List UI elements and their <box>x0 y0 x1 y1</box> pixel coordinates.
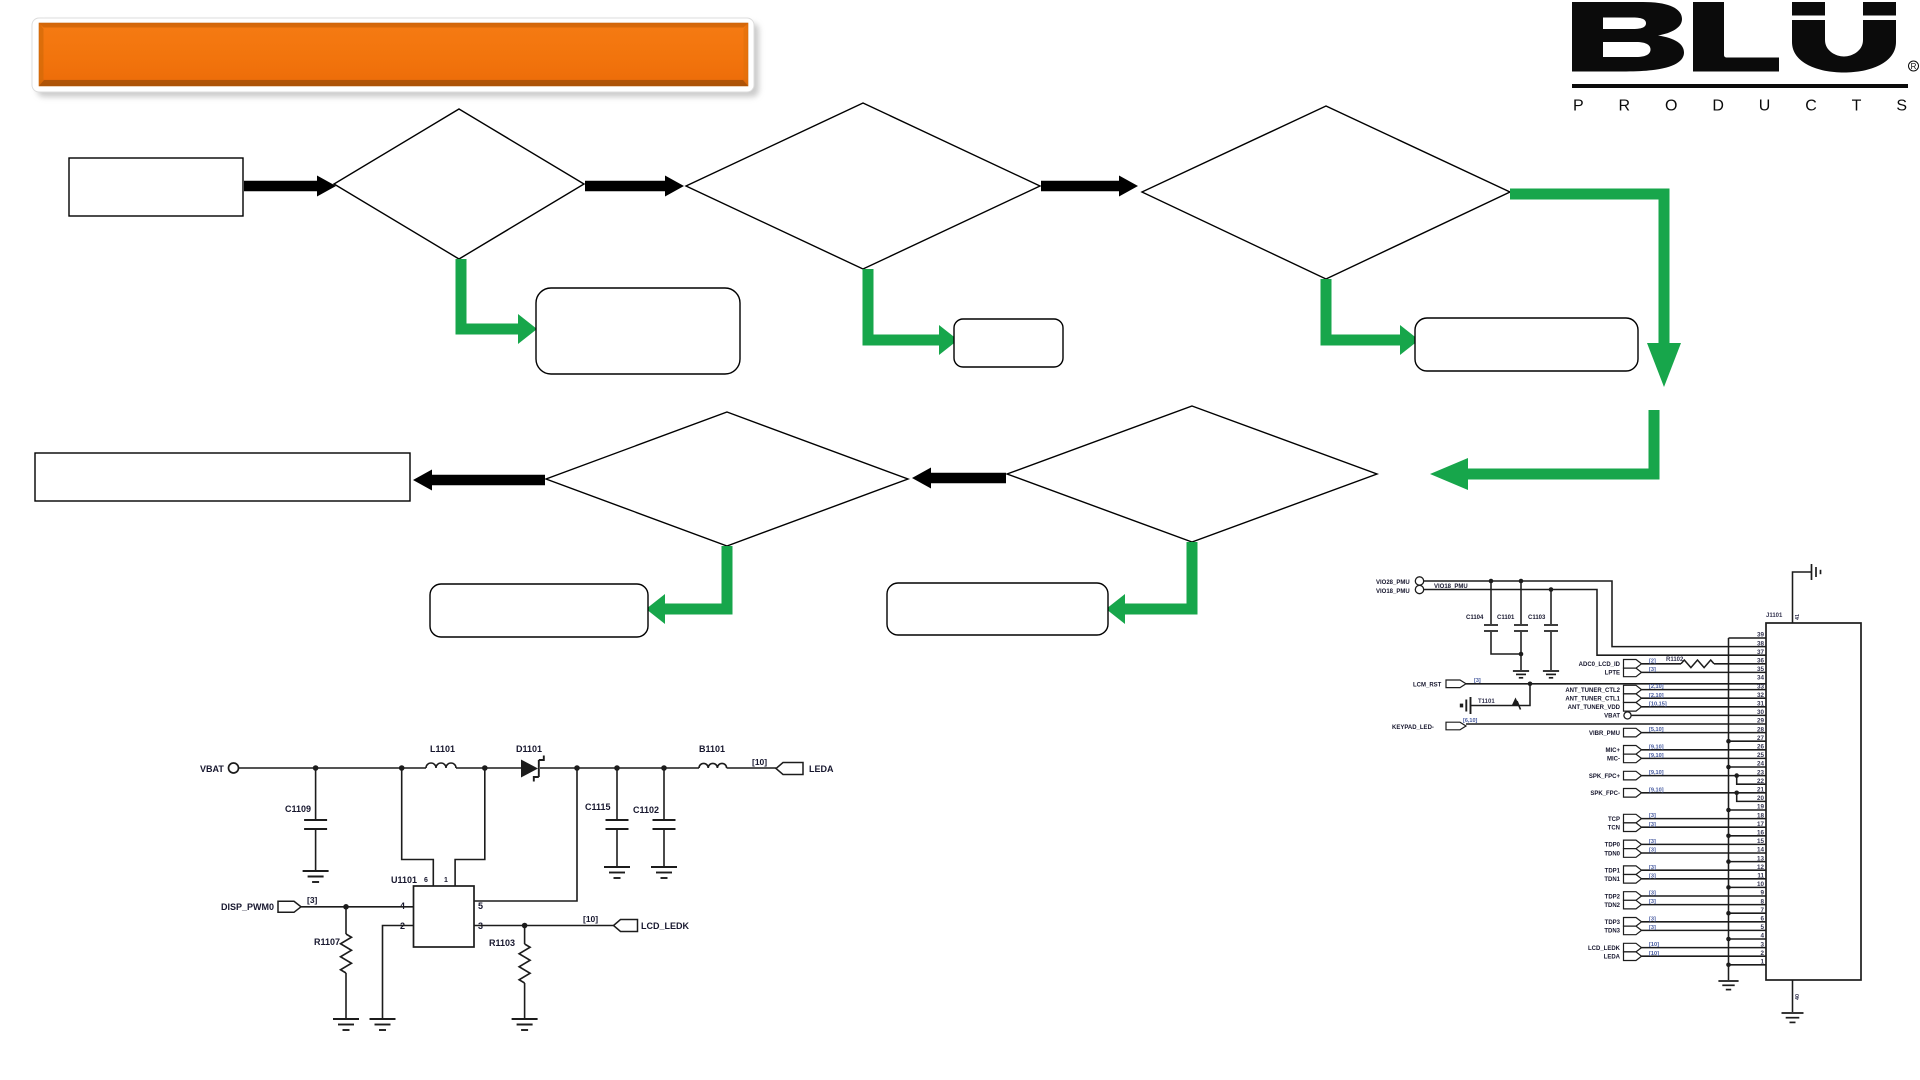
svg-text:5: 5 <box>1760 924 1764 931</box>
result box 4 <box>430 584 648 637</box>
node TCN (pin 17) <box>1608 822 1766 832</box>
svg-text:C1101: C1101 <box>1497 615 1515 621</box>
wire U1101 pin5 feedback <box>474 768 577 901</box>
green arrow to result box 5 <box>1106 542 1192 624</box>
svg-text:TDP2: TDP2 <box>1605 894 1621 900</box>
svg-text:[3]: [3] <box>1649 848 1656 854</box>
node TDN3 (pin 5) <box>1604 925 1766 935</box>
wire pin 27 to ground bus <box>1729 740 1767 742</box>
wire pin 3 to LCD_LEDK <box>474 925 614 927</box>
svg-text:[3]: [3] <box>1649 839 1656 845</box>
svg-text:TCP: TCP <box>1608 817 1620 823</box>
flow start box <box>69 158 243 216</box>
svg-text:[3]: [3] <box>1649 813 1656 819</box>
wire VIO28 rail to pin 38 <box>1424 581 1766 647</box>
wire VIO18 rail to pin 37 <box>1424 590 1766 656</box>
ground C1102 <box>651 867 677 878</box>
svg-text:TDP1: TDP1 <box>1605 869 1621 875</box>
svg-text:ANT_TUNER_CTL2: ANT_TUNER_CTL2 <box>1565 688 1620 694</box>
BLU PRODUCTS logo <box>1572 2 1919 115</box>
svg-text:21: 21 <box>1757 787 1765 794</box>
node junction C1104 <box>1489 579 1494 584</box>
wire VBAT rail <box>239 767 427 769</box>
decision diamond 5 (row 2 right) <box>1007 406 1377 542</box>
capacitor C1102 <box>633 768 676 866</box>
svg-text:30: 30 <box>1757 709 1765 716</box>
node TDN0 (pin 14) <box>1604 848 1766 858</box>
resistor R1107 <box>314 907 352 1018</box>
node TDP0 (pin 15) <box>1605 839 1766 849</box>
wire T1101 branch <box>1471 684 1531 706</box>
ground C1115 <box>604 867 630 878</box>
svg-text:6: 6 <box>424 877 428 884</box>
wire SPK_FPC+ stub to pin 22 <box>1737 776 1766 785</box>
svg-text:[9,10]: [9,10] <box>1649 770 1664 776</box>
decision diamond 1 <box>334 109 584 259</box>
node TDP3 (pin 6) <box>1605 916 1766 926</box>
wire pin 2 to ground <box>383 926 414 1019</box>
svg-text:32: 32 <box>1757 692 1765 699</box>
svg-text:16: 16 <box>1757 830 1765 837</box>
svg-text:26: 26 <box>1757 744 1765 751</box>
svg-text:TDN0: TDN0 <box>1604 851 1620 857</box>
ground C1103 <box>1543 671 1559 678</box>
svg-text:VBAT: VBAT <box>200 764 224 774</box>
svg-text:18: 18 <box>1757 812 1765 819</box>
svg-text:TDN1: TDN1 <box>1604 877 1620 883</box>
svg-text:3: 3 <box>1760 941 1764 948</box>
wire LCM_RST to pin 34 <box>1466 683 1766 685</box>
wire pin 24 to ground bus <box>1729 766 1767 768</box>
svg-text:6: 6 <box>1760 916 1764 923</box>
svg-text:33: 33 <box>1757 683 1765 690</box>
black arrow 3 <box>1041 176 1138 197</box>
wire pin 10 to ground bus <box>1729 886 1767 888</box>
svg-text:ANT_TUNER_VDD: ANT_TUNER_VDD <box>1568 705 1621 711</box>
wire pin 4 to ground bus <box>1729 938 1767 940</box>
svg-text:37: 37 <box>1757 649 1765 656</box>
svg-text:1: 1 <box>1760 959 1764 966</box>
svg-text:[3]: [3] <box>1649 667 1656 673</box>
wire pin 1 to ground bus <box>1729 964 1767 966</box>
svg-text:TDN2: TDN2 <box>1604 903 1620 909</box>
svg-text:[6,10]: [6,10] <box>1463 718 1478 724</box>
svg-text:14: 14 <box>1757 847 1765 854</box>
svg-text:22: 22 <box>1757 778 1765 785</box>
wire pin 40 to ground <box>1792 980 1794 1012</box>
svg-text:D1101: D1101 <box>516 744 542 754</box>
svg-text:L1101: L1101 <box>430 744 455 754</box>
svg-text:[10]: [10] <box>1649 942 1659 948</box>
wire pin 41 to ground <box>1793 572 1812 623</box>
op-amp U1101 (boost driver IC) <box>391 875 483 947</box>
svg-text:MIC-: MIC- <box>1607 757 1620 763</box>
svg-text:10: 10 <box>1757 881 1765 888</box>
result box 1 <box>536 288 740 374</box>
node MIC- (pin 25) <box>1607 753 1766 763</box>
svg-text:38: 38 <box>1757 640 1765 647</box>
diode D1101 (schottky) <box>516 744 544 782</box>
svg-text:[9,10]: [9,10] <box>1649 753 1664 759</box>
capacitor C1104 <box>1466 581 1521 654</box>
svg-text:B1101: B1101 <box>699 744 725 754</box>
ground pin 40 <box>1782 1013 1804 1022</box>
capacitor C1103 <box>1528 590 1558 671</box>
svg-text:TDP3: TDP3 <box>1605 920 1621 926</box>
svg-text:[10]: [10] <box>752 757 767 767</box>
svg-text:20: 20 <box>1757 795 1765 802</box>
node junction L1101 right <box>482 765 488 771</box>
node LCD_LEDK (pin 3) <box>1588 942 1766 952</box>
ground C1109 <box>303 871 329 882</box>
black arrow 1 <box>244 176 336 197</box>
wire DISP_PWM0 to pin 4 <box>301 906 414 908</box>
svg-text:[2]: [2] <box>1649 658 1656 664</box>
node TCP (pin 18) <box>1608 813 1766 823</box>
node junction C1103 <box>1549 587 1554 592</box>
svg-text:24: 24 <box>1757 761 1765 768</box>
svg-text:VIO18_PMU: VIO18_PMU <box>1376 589 1410 595</box>
green arrow to result box 3 <box>1326 279 1419 355</box>
svg-text:[3]: [3] <box>1649 925 1656 931</box>
green connector down from diamond 3 <box>1510 194 1681 387</box>
svg-text:C1104: C1104 <box>1466 615 1484 621</box>
capacitor C1115 <box>585 768 629 866</box>
svg-text:C1103: C1103 <box>1528 615 1546 621</box>
node junction R1107 <box>343 904 349 910</box>
svg-text:SPK_FPC+: SPK_FPC+ <box>1589 774 1621 780</box>
svg-text:LEDA: LEDA <box>1604 955 1621 961</box>
node junction C1109 <box>313 765 319 771</box>
svg-text:[3]: [3] <box>1649 865 1656 871</box>
black arrow row2 middle <box>912 468 1006 489</box>
ferrite bead B1101 <box>699 744 727 768</box>
svg-text:25: 25 <box>1757 752 1765 759</box>
decision diamond 3 <box>1142 106 1510 279</box>
svg-text:ANT_TUNER_CTL1: ANT_TUNER_CTL1 <box>1565 697 1620 703</box>
result box 3 <box>1415 318 1638 371</box>
node junction C1101 <box>1519 579 1524 584</box>
node ANT_TUNER_CTL2 (pin 33) <box>1565 684 1766 694</box>
svg-text:4: 4 <box>1760 933 1764 940</box>
svg-text:7: 7 <box>1760 907 1764 914</box>
node VIBR_PMU (pin 28) <box>1589 727 1766 737</box>
green arrow to result box 4 <box>646 546 727 624</box>
svg-text:[3]: [3] <box>307 895 318 905</box>
svg-text:[9,10]: [9,10] <box>1649 744 1664 750</box>
svg-text:1: 1 <box>444 877 448 884</box>
svg-text:VIO28_PMU: VIO28_PMU <box>1376 580 1410 586</box>
end box row 2 <box>35 453 410 501</box>
node TDP1 (pin 12) <box>1605 865 1766 875</box>
wire L1101 right leg to U1101 <box>455 768 485 886</box>
svg-text:[3]: [3] <box>1649 891 1656 897</box>
node MIC+ (pin 26) <box>1605 744 1766 754</box>
svg-text:ADC0_LCD_ID: ADC0_LCD_ID <box>1579 662 1621 668</box>
svg-text:2: 2 <box>1760 950 1764 957</box>
svg-text:36: 36 <box>1757 658 1765 665</box>
black arrow 2 <box>585 176 684 197</box>
svg-text:LCD_LEDK: LCD_LEDK <box>641 921 690 931</box>
node ANT_TUNER_VDD (pin 31) <box>1568 701 1766 711</box>
ground pin 41 (rotated) <box>1812 564 1821 580</box>
result box 2 <box>954 319 1063 367</box>
wire pin 13 to ground bus <box>1729 861 1767 863</box>
green arrow to result box 1 <box>461 259 537 344</box>
wire pin 39 to ground bus <box>1729 637 1767 639</box>
node TDP2 (pin 9) <box>1605 891 1766 901</box>
svg-text:[3]: [3] <box>1649 899 1656 905</box>
node LPTE (pin 35) <box>1605 667 1766 677</box>
wire KEYPAD_LED- to pin 29 <box>1466 723 1766 725</box>
svg-text:T1101: T1101 <box>1478 699 1495 705</box>
svg-text:[3]: [3] <box>1649 873 1656 879</box>
title banner <box>32 18 759 97</box>
node VBAT (pin 30) <box>1604 712 1766 720</box>
svg-text:PRODUCTS: PRODUCTS <box>1573 98 1907 115</box>
svg-text:R1102: R1102 <box>1666 657 1684 663</box>
wire D1101 to B1101 <box>540 767 699 769</box>
ground pin 2 <box>370 1019 396 1030</box>
ground C1101 <box>1513 671 1529 678</box>
svg-text:[10]: [10] <box>583 914 598 924</box>
svg-text:8: 8 <box>1760 898 1764 905</box>
node junction C1115 <box>614 765 620 771</box>
svg-text:29: 29 <box>1757 718 1765 725</box>
svg-text:TDN3: TDN3 <box>1604 929 1620 935</box>
svg-text:23: 23 <box>1757 769 1765 776</box>
wire B1101 to LEDA <box>727 767 776 769</box>
svg-text:34: 34 <box>1757 675 1765 682</box>
svg-text:11: 11 <box>1757 873 1764 880</box>
node LEDA output <box>776 763 803 775</box>
node junction R1103 <box>522 923 528 929</box>
svg-text:[3]: [3] <box>1649 822 1656 828</box>
svg-text:LPTE: LPTE <box>1605 671 1620 677</box>
resistor R1102 <box>1666 657 1766 668</box>
svg-text:5: 5 <box>478 901 483 911</box>
svg-text:LCD_LEDK: LCD_LEDK <box>1588 946 1621 952</box>
wire pin 19 to ground bus <box>1729 809 1767 811</box>
wire SPK_FPC- stub to pin 20 <box>1737 793 1766 802</box>
node ANT_TUNER_CTL1 (pin 32) <box>1565 693 1766 703</box>
svg-text:DISP_PWM0: DISP_PWM0 <box>221 902 274 912</box>
svg-text:SPK_FPC-: SPK_FPC- <box>1590 791 1620 797</box>
svg-text:LCM_RST: LCM_RST <box>1413 683 1442 689</box>
decision diamond 2 <box>686 103 1040 269</box>
node junction C1101 gnd <box>1519 652 1524 657</box>
result box 5 <box>887 583 1108 635</box>
inductor L1101 <box>426 744 456 768</box>
node VIO28_PMU terminal <box>1376 577 1424 586</box>
svg-text:[2,10]: [2,10] <box>1649 693 1664 699</box>
node TDN2 (pin 8) <box>1604 899 1766 909</box>
svg-text:15: 15 <box>1757 838 1765 845</box>
node VBAT input <box>200 763 239 774</box>
svg-text:31: 31 <box>1757 701 1765 708</box>
svg-text:MIC+: MIC+ <box>1605 748 1620 754</box>
node LEDA (pin 2) <box>1604 951 1766 961</box>
black arrow row2 left <box>413 470 545 491</box>
svg-text:R1107: R1107 <box>314 937 340 947</box>
capacitor C1109 <box>285 768 327 870</box>
svg-text:C1102: C1102 <box>633 805 659 815</box>
node LCD_LEDK output <box>614 920 638 932</box>
node SPK_FPC- (pin 21) <box>1590 787 1766 797</box>
green arrow to result box 2 <box>868 269 958 355</box>
wire L1101 to D1101 <box>456 767 521 769</box>
node diode output junction <box>574 765 580 771</box>
svg-text:39: 39 <box>1757 632 1765 639</box>
svg-text:35: 35 <box>1757 666 1765 673</box>
wire ground bus <box>1728 638 1730 980</box>
svg-text:R1103: R1103 <box>489 938 515 948</box>
svg-text:[3]: [3] <box>1649 916 1656 922</box>
svg-text:LEDA: LEDA <box>809 764 834 774</box>
resistor R1103 <box>489 926 530 1019</box>
node junction T1101 <box>1528 682 1533 687</box>
svg-text:[10]: [10] <box>1649 951 1659 957</box>
svg-text:[9,10]: [9,10] <box>1649 787 1664 793</box>
svg-text:40: 40 <box>1795 994 1801 1000</box>
node TDN1 (pin 11) <box>1604 873 1766 883</box>
svg-text:19: 19 <box>1757 804 1765 811</box>
svg-text:J1101: J1101 <box>1766 613 1783 619</box>
connector J1101 <box>1766 613 1861 980</box>
svg-text:C1109: C1109 <box>285 804 311 814</box>
node junction L1101 left <box>399 765 405 771</box>
wire pin 7 to ground bus <box>1729 912 1767 914</box>
svg-text:TCN: TCN <box>1608 826 1620 832</box>
svg-text:28: 28 <box>1757 726 1765 733</box>
svg-text:VIBR_PMU: VIBR_PMU <box>1589 731 1620 737</box>
svg-text:9: 9 <box>1760 890 1764 897</box>
node ADC0_LCD_ID (pin 36) <box>1579 658 1681 668</box>
node VIO18_PMU terminal <box>1376 585 1424 595</box>
svg-text:VBAT: VBAT <box>1604 714 1620 720</box>
svg-text:17: 17 <box>1757 821 1765 828</box>
svg-text:R: R <box>1911 62 1917 71</box>
svg-text:[5,10]: [5,10] <box>1649 727 1664 733</box>
green connector into row 2 <box>1430 410 1654 490</box>
svg-text:KEYPAD_LED-: KEYPAD_LED- <box>1392 725 1434 731</box>
ground bus symbol <box>1718 981 1738 990</box>
node SPK_FPC+ (pin 23) <box>1589 770 1766 780</box>
node junction C1102 <box>661 765 667 771</box>
svg-text:12: 12 <box>1757 864 1765 871</box>
ground R1107 <box>333 1019 359 1030</box>
svg-text:TDP0: TDP0 <box>1605 843 1621 849</box>
pin numbers 1-39 <box>1757 632 1765 966</box>
wire pin 16 to ground bus <box>1729 835 1767 837</box>
svg-text:13: 13 <box>1757 855 1765 862</box>
capacitor C1101 <box>1497 581 1528 670</box>
svg-text:27: 27 <box>1757 735 1765 742</box>
svg-text:41: 41 <box>1795 614 1801 620</box>
decision diamond 4 (row 2 left) <box>546 412 908 546</box>
wire L1101 left leg to U1101 <box>402 768 434 886</box>
ground R1103 <box>512 1019 538 1030</box>
svg-text:[10,15]: [10,15] <box>1649 701 1667 707</box>
svg-text:U1101: U1101 <box>391 875 417 885</box>
svg-text:[2,10]: [2,10] <box>1649 684 1664 690</box>
svg-text:C1115: C1115 <box>585 802 611 812</box>
transistor T1101 <box>1460 697 1521 714</box>
